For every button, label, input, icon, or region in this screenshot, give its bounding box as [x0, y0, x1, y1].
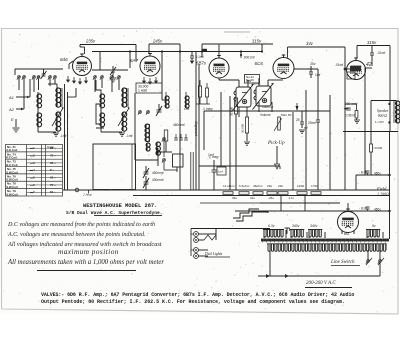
wire 245v right drop	[179, 44, 181, 52]
svg-text:6d6: 6d6	[60, 57, 68, 62]
svg-text:0.1mf: 0.1mf	[196, 55, 204, 59]
svg-text:35v: 35v	[310, 62, 316, 66]
wire 315v rail B	[357, 45, 390, 47]
wire x375 vert	[370, 101, 372, 145]
wire E drop	[15, 119, 17, 127]
wire x345 long	[344, 69, 346, 190]
wire 235v rail	[80, 44, 136, 46]
wire 42 input	[345, 68, 350, 70]
wire 80 plate	[347, 203, 349, 211]
capacitor C4 mid	[111, 70, 115, 72]
wire 6A7 sect top line	[92, 69, 128, 71]
capacitor 0.1mf 600v	[190, 56, 194, 58]
avc arrowhead	[296, 106, 299, 111]
svg-text:Speaker: Speaker	[377, 109, 389, 113]
wire 315v rail A left drop	[201, 44, 203, 57]
svg-text:6C6: 6C6	[255, 61, 264, 66]
transformer winding 340v A	[290, 230, 304, 238]
wire IF T1 top	[238, 80, 240, 87]
switch linkage	[233, 209, 259, 218]
antenna coil L1	[37, 94, 42, 108]
RF coil L8	[122, 112, 127, 131]
resistor chain R11	[239, 192, 249, 195]
capacitor padder2	[144, 182, 149, 184]
wire bus drop x130	[129, 52, 131, 68]
svg-text:6.5ohm: 6.5ohm	[239, 184, 250, 188]
svg-text:1 meg: 1 meg	[203, 107, 213, 111]
padder box	[164, 130, 168, 141]
node junction filter A	[388, 174, 390, 176]
switch S2c	[110, 76, 113, 80]
svg-text:460mmf: 460mmf	[173, 123, 185, 127]
wire ps top link	[260, 202, 340, 204]
svg-text:25: 25	[296, 118, 300, 122]
wire 235v left drop	[79, 45, 81, 48]
ground tone	[354, 120, 360, 123]
svg-text:315v: 315v	[367, 40, 377, 45]
wire bus drop x196	[195, 52, 197, 190]
wire osc links	[135, 159, 158, 161]
svg-text:50m 50: 50m 50	[281, 113, 292, 117]
svg-text:39s: 39s	[232, 196, 237, 200]
svg-text:92 +: 92 +	[50, 176, 56, 180]
svg-text:0.05mf: 0.05mf	[345, 114, 355, 118]
capacitor 1mf near 34v	[309, 72, 313, 74]
svg-text:WESTINGHOUSE MODEL 287.: WESTINGHOUSE MODEL 287.	[83, 203, 157, 209]
volume pot	[278, 117, 281, 130]
svg-text:30,000: 30,000	[241, 123, 245, 133]
wire lamp top	[191, 228, 270, 230]
svg-text:A1: A1	[8, 95, 14, 100]
svg-text:25mf: 25mf	[308, 121, 316, 125]
wire bus drop x162	[161, 52, 163, 68]
resistor 1500	[370, 144, 373, 152]
svg-text:Dial Lights: Dial Lights	[204, 252, 223, 256]
switch lamp	[204, 235, 216, 240]
svg-text:70 +: 70 +	[50, 183, 56, 187]
svg-text:- 8 mf: - 8 mf	[359, 171, 367, 175]
wire 6A7 step link	[96, 80, 104, 128]
svg-text:Output Pentode; 80 Rectifier;: Output Pentode; 80 Rectifier; I.F. 262.5…	[41, 299, 345, 305]
switch S3c	[162, 138, 166, 142]
resistor R6	[245, 117, 248, 133]
RF coil L3 core	[60, 88, 62, 107]
wire avc line	[204, 110, 236, 112]
svg-text:72 +: 72 +	[50, 153, 56, 157]
svg-text:1mf: 1mf	[218, 170, 223, 174]
svg-text:450v: 450v	[374, 208, 381, 212]
wire det line	[236, 110, 330, 112]
wire osc vert x135	[134, 93, 136, 160]
switch S2d	[117, 76, 120, 80]
switch S3b	[146, 111, 150, 115]
switch S1b	[22, 76, 26, 80]
capacitor 25mf det	[300, 122, 304, 124]
wire 315v B right drop	[389, 46, 391, 132]
wire 6A7 pins	[143, 77, 146, 83]
tube V3 6B7	[209, 56, 229, 79]
wire chassis bus lower	[133, 195, 390, 197]
resistor chain R15	[297, 192, 307, 195]
svg-text:-26s: -26s	[268, 196, 274, 200]
wire IF drops	[238, 107, 240, 117]
wire bus drop x100	[99, 52, 101, 70]
note underline	[37, 270, 136, 272]
svg-text:VALVES:- 6D6 R.F. Amp.; 6A7 Pe: VALVES:- 6D6 R.F. Amp.; 6A7 Pentagrid Co…	[41, 292, 354, 298]
resistor label box No24	[245, 75, 260, 84]
dial lamp pair 2	[194, 248, 199, 253]
rectifier V6 80	[338, 209, 359, 233]
osc coil L9 core	[149, 124, 151, 142]
wire 6B7 topcap	[218, 44, 220, 56]
wire primary left	[269, 245, 271, 276]
RF coil L8 arrow	[118, 108, 129, 126]
wire 315v B left drop	[356, 46, 358, 59]
svg-text:S/B Dual Wave A.C. Superhetero: S/B Dual Wave A.C. Superheterodyne.	[66, 210, 163, 216]
ground arrow for 0.1mf	[190, 61, 194, 65]
svg-text:200-260 V A.C: 200-260 V A.C	[306, 281, 336, 286]
wire x306 vert	[305, 90, 307, 190]
wire ant top drop left	[14, 69, 16, 75]
svg-text:Field: Field	[376, 186, 387, 191]
node junction dot x345	[344, 68, 347, 71]
RF coil L4	[56, 112, 61, 131]
wire x199 vert	[198, 64, 200, 190]
wire x365 vert	[364, 68, 366, 175]
capacitor .01mf at 42	[370, 53, 374, 55]
svg-text:-01mf: -01mf	[335, 63, 343, 67]
coupling coil L6	[100, 113, 105, 127]
node junction speaker	[388, 121, 390, 123]
wire winding leads	[263, 230, 265, 238]
osc grid coil A	[165, 96, 169, 108]
resistor chain R10	[223, 192, 233, 195]
svg-text:Volume: Volume	[260, 113, 271, 117]
switch S1f	[48, 76, 52, 80]
trimmer row	[174, 138, 177, 140]
transformer winding 6.3v	[263, 230, 284, 238]
faint header smudge	[224, 31, 250, 33]
svg-text:29s: 29s	[267, 184, 272, 188]
svg-text:1 watt: 1 watt	[138, 89, 147, 93]
wire 34v rail	[288, 46, 346, 48]
capacitor osc tuning	[157, 110, 162, 112]
wire 315v rail A right drop	[261, 44, 263, 52]
svg-text:-1mf: -1mf	[126, 134, 132, 138]
wire chassis bus upper	[63, 189, 390, 191]
wire transformer right leads	[385, 244, 387, 250]
node bus dots	[129, 50, 131, 52]
svg-text:.0001mf: .0001mf	[243, 56, 255, 60]
node bus smudge	[202, 49, 208, 51]
svg-text:34s: 34s	[250, 196, 255, 200]
svg-text:46ohm: 46ohm	[253, 184, 263, 188]
svg-text:2 Amp: 2 Amp	[83, 193, 92, 197]
capacitor 8mf B	[366, 207, 370, 209]
wire x162 drop	[161, 68, 163, 100]
RF coil L4 arrow	[52, 108, 63, 126]
wire ps right vert	[389, 211, 391, 239]
svg-text:Line Switch: Line Switch	[330, 260, 355, 265]
transformer core	[261, 239, 389, 242]
ground E	[12, 128, 19, 132]
RF coil L7	[122, 88, 127, 107]
wire box inner edge	[131, 144, 133, 189]
tube V5 42	[347, 58, 366, 80]
svg-text:29s: 29s	[278, 184, 283, 188]
wire bus drop x241	[240, 52, 242, 58]
svg-text:340v: 340v	[310, 224, 318, 228]
svg-text:2 W: 2 W	[246, 79, 251, 83]
capacitor 1mf box	[217, 167, 226, 175]
wire 315v rail A	[202, 43, 273, 45]
volume pot arrow	[274, 119, 281, 131]
wire ps link2	[235, 210, 348, 212]
wire IF T2 top	[258, 78, 260, 86]
svg-text:D.C voltages are measured from: D.C voltages are measured from the point…	[7, 221, 155, 228]
wire ac bottom	[270, 275, 352, 277]
svg-text:Pick-Up: Pick-Up	[267, 141, 285, 146]
resistor chain R12	[253, 192, 263, 195]
wire x389 vert	[389, 132, 391, 176]
svg-text:11 ohms: 11 ohms	[223, 184, 235, 188]
svg-text:Alignment: Alignment	[194, 121, 198, 136]
wire filter line A	[356, 174, 390, 176]
wire 80 filament	[341, 230, 343, 234]
wire main HT bus	[92, 51, 262, 53]
switch S3a	[138, 111, 142, 115]
osc coil L10	[156, 142, 160, 155]
svg-text:6.3v: 6.3v	[268, 224, 275, 228]
svg-text:E: E	[11, 117, 14, 122]
ground L8	[119, 133, 125, 136]
tube V5 grid box	[350, 66, 361, 71]
wire x318 vert	[317, 69, 319, 108]
capacitor core T symbol	[286, 228, 288, 234]
switch S2a	[93, 76, 96, 80]
dial lamp pair 1	[194, 232, 199, 237]
ground L4	[53, 133, 59, 136]
tube V2 6A7	[140, 54, 160, 77]
capacitor 8mf A	[366, 171, 370, 173]
wire lamp left vert	[190, 229, 192, 257]
speaker transformer	[396, 101, 400, 123]
ground R6	[244, 142, 250, 145]
tube V4 6C6	[273, 55, 294, 79]
resistor R1 33000 ohm label box	[136, 83, 162, 93]
wire x330 vert	[329, 95, 331, 190]
svg-text:A2: A2	[8, 107, 15, 112]
wire lamp leads	[198, 233, 206, 235]
wire 245v left drop	[148, 44, 150, 54]
node 200-260V underline	[305, 287, 352, 289]
wire x230 vert	[229, 96, 231, 190]
pickup arrow	[275, 164, 280, 169]
svg-text:35 +: 35 +	[50, 161, 56, 165]
capacitor 200mmf	[346, 108, 351, 110]
svg-text:340v: 340v	[292, 224, 300, 228]
svg-text:-01mf: -01mf	[377, 51, 385, 55]
svg-text:5v: 5v	[372, 224, 376, 228]
osc coil L9	[145, 124, 149, 142]
switch S3d	[162, 159, 166, 163]
svg-text:315v: 315v	[252, 39, 262, 44]
wire A1 vert	[29, 79, 31, 97]
switch S1c	[32, 76, 36, 80]
svg-text:34v: 34v	[306, 41, 314, 46]
wire speaker top	[371, 100, 397, 102]
transformer primary	[267, 244, 387, 252]
svg-text:1mf: 1mf	[208, 153, 214, 157]
IF transformer T1 can	[233, 84, 254, 111]
svg-text:52 +: 52 +	[50, 190, 56, 194]
switch S1a	[17, 76, 21, 80]
antenna coil L2	[37, 113, 42, 127]
wire pickup drop	[276, 146, 278, 164]
ground 25mf	[299, 130, 305, 133]
wire 6D6 pin arrows	[67, 76, 70, 82]
fuse 2A	[75, 188, 79, 192]
ground C4	[109, 78, 116, 82]
svg-text:800 Ω: 800 Ω	[378, 114, 387, 118]
svg-text:400mmf: 400mmf	[152, 178, 164, 182]
node DialLights underline	[205, 256, 230, 258]
osc grid coil B	[185, 96, 189, 108]
tube V1 6D6	[73, 54, 92, 76]
svg-text:235v: 235v	[85, 39, 96, 44]
svg-text:8 +: 8 +	[50, 168, 55, 172]
svg-text:170Ω: 170Ω	[311, 184, 319, 188]
svg-text:Tickler: Tickler	[47, 145, 55, 149]
resistor tone	[355, 111, 358, 119]
wire speaker line	[343, 131, 398, 133]
transformer winding 5v	[366, 230, 380, 238]
svg-text:A.C. voltages are measured bet: A.C. voltages are measured between the p…	[7, 232, 146, 238]
resistor grid leak pair	[198, 86, 201, 97]
svg-text:All measurements taken with a: All measurements taken with a 1,000 ohms…	[7, 259, 164, 266]
wire x293 vert	[292, 112, 294, 190]
wire sw2 drops	[94, 79, 96, 92]
switch S1d	[36, 76, 40, 80]
svg-text:110Ω: 110Ω	[297, 184, 305, 188]
wire x180 vert	[179, 52, 181, 190]
capacitor padder1	[144, 172, 149, 174]
wire mid links	[199, 165, 280, 167]
RF coil L7 core	[126, 88, 128, 107]
wire L3 top	[56, 84, 58, 88]
table component values	[6, 145, 63, 197]
wire 235v right drop	[135, 45, 137, 62]
svg-text:- 8 mf: - 8 mf	[359, 207, 367, 211]
svg-text:42: 42	[366, 62, 372, 68]
title underline	[94, 214, 162, 216]
wire x221 vert	[220, 92, 222, 166]
dial assembly box	[93, 144, 136, 190]
resistor chain R13	[267, 192, 277, 195]
resistor R5	[234, 98, 237, 114]
svg-text:80: 80	[344, 231, 350, 236]
svg-text:maximum position: maximum position	[58, 248, 119, 256]
resistor chain R16	[311, 192, 321, 195]
wire tone top	[345, 103, 357, 105]
wire lamp riser	[215, 228, 217, 240]
wire 34v drop	[344, 47, 346, 70]
node junction x241	[240, 54, 242, 56]
svg-text:L=300: L=300	[374, 120, 384, 124]
ac arrow 2	[285, 274, 289, 278]
wire 6C6 plate line	[294, 68, 318, 70]
wire alignment pair	[190, 152, 192, 190]
wire x75 drop	[75, 88, 77, 97]
switch S1e	[53, 76, 57, 80]
coupling coil L5	[100, 94, 105, 108]
RF coil L3	[56, 88, 61, 107]
wire mid section bottom	[101, 131, 122, 133]
IF transformer T2 can	[253, 83, 274, 110]
node junction filter B	[388, 210, 390, 212]
wire osc bottom drop	[145, 184, 147, 190]
capacitor 25mf right	[316, 120, 320, 122]
wire 6C6 couple	[268, 79, 283, 81]
wire antenna top line	[15, 68, 63, 70]
node LineSwitch underline	[331, 265, 360, 267]
wire L5-L6	[100, 108, 102, 113]
svg-text:6B7s: 6B7s	[196, 61, 207, 66]
wire filter line B	[348, 210, 390, 212]
ground center bus	[280, 196, 282, 211]
wire switch to ac	[379, 263, 381, 276]
svg-text:245v: 245v	[152, 39, 163, 44]
wire sw drops	[18, 79, 20, 90]
svg-text:6A7: 6A7	[130, 58, 139, 63]
capacitor 1mf mid	[212, 170, 217, 172]
padder box 2	[173, 154, 184, 167]
svg-text:450v: 450v	[374, 172, 381, 176]
wire 42 screen	[371, 60, 373, 66]
svg-text:S.W.Coil: S.W.Coil	[6, 192, 18, 196]
tube V5 cathode box	[347, 72, 355, 79]
svg-text:-17s: -17s	[288, 196, 294, 200]
resistor chain R14	[278, 192, 288, 195]
wire 6C6 topcap riser	[287, 47, 289, 58]
wire 245v rail	[149, 43, 180, 45]
transformer winding 340v B	[308, 230, 322, 238]
ac arrow 1	[266, 274, 270, 278]
switch S2b	[100, 76, 103, 80]
wire 6D6 cathode	[68, 64, 70, 69]
trimmer cap T1	[42, 74, 46, 76]
line switch symbol	[366, 260, 370, 264]
wire x69 long drop	[64, 84, 66, 190]
wire ant section bottom	[38, 131, 56, 133]
wire ps mid verts	[389, 175, 391, 211]
wire L1-L2	[37, 92, 39, 94]
